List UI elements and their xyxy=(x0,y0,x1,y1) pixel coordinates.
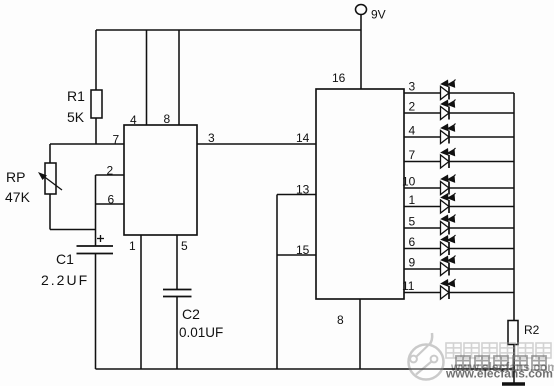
LED D3 xyxy=(441,80,456,100)
svg-text:6: 6 xyxy=(108,193,115,207)
svg-text:15: 15 xyxy=(296,243,310,257)
wire C2 bottom xyxy=(176,297,178,370)
wire pin 4 drop xyxy=(146,30,148,125)
wire pin 5 drop xyxy=(176,235,178,290)
wire top supply rail xyxy=(96,29,361,31)
wire 4017 output 11 row xyxy=(404,292,514,294)
wire pin 13 stub xyxy=(277,194,316,196)
watermark logo circle xyxy=(409,333,444,380)
wire RP bottom xyxy=(49,194,51,230)
svg-text:6: 6 xyxy=(409,235,416,249)
svg-text:7: 7 xyxy=(113,133,120,147)
ground symbol xyxy=(502,382,525,386)
svg-text:1: 1 xyxy=(129,239,136,253)
wire 4017 output 9 row xyxy=(404,268,514,270)
svg-text:8: 8 xyxy=(164,112,171,126)
wire 4017 output 1 row xyxy=(404,206,514,208)
svg-text:2: 2 xyxy=(409,100,416,114)
watermark CJK row dark xyxy=(456,356,546,370)
node 9V terminal xyxy=(356,5,367,15)
wire LED bus right xyxy=(513,93,515,321)
wire pin 7 line xyxy=(50,143,124,145)
svg-text:3: 3 xyxy=(409,80,416,94)
svg-text:R2: R2 xyxy=(524,323,540,337)
svg-text:4: 4 xyxy=(409,124,416,138)
svg-text:14: 14 xyxy=(296,131,310,145)
wire bottom ground rail xyxy=(96,368,515,370)
wire pin 3 to pin 14 xyxy=(197,143,316,145)
wire 4017 output 7 row xyxy=(404,161,514,163)
watermark group xyxy=(409,333,554,381)
potentiometer RP xyxy=(38,163,62,194)
wire 4017 pin 8 to ground xyxy=(359,299,361,369)
svg-text:4: 4 xyxy=(130,113,137,127)
polarity plus C1 xyxy=(97,235,104,242)
LED D7 xyxy=(441,148,456,168)
LED D4 xyxy=(441,124,456,144)
LED D5 xyxy=(441,215,456,235)
resistor R2 xyxy=(508,321,518,345)
LED D6 xyxy=(441,235,456,255)
svg-text:47K: 47K xyxy=(5,189,31,205)
LED D9 xyxy=(441,256,456,276)
svg-text:9V: 9V xyxy=(371,8,386,22)
LED rows group xyxy=(402,80,514,300)
svg-text:13: 13 xyxy=(296,183,310,197)
wire 4017 output 3 row xyxy=(404,92,514,94)
wire pin 1 drop xyxy=(140,235,142,369)
wire pin 6 stub xyxy=(96,203,125,205)
svg-text:2.2UF: 2.2UF xyxy=(41,272,89,288)
svg-text:RP: RP xyxy=(6,169,25,185)
wire pin 2 stub xyxy=(96,174,125,176)
svg-text:16: 16 xyxy=(332,71,346,85)
wire 4017 output 5 row xyxy=(404,227,514,229)
svg-text:2: 2 xyxy=(107,164,114,178)
wire pins 2-6 tie xyxy=(95,175,97,246)
wire pin 15 stub xyxy=(277,254,316,256)
svg-text:5K: 5K xyxy=(67,109,85,125)
svg-text:8: 8 xyxy=(337,313,344,327)
svg-text:0.01UF: 0.01UF xyxy=(179,325,223,340)
wire pins 13-15 tie xyxy=(276,195,278,370)
svg-text:9: 9 xyxy=(409,256,416,270)
wire 4017 output 6 row xyxy=(404,248,514,250)
LED D2 xyxy=(441,100,456,120)
LED D11 xyxy=(441,279,456,299)
resistor R1 xyxy=(91,90,102,118)
IC U2 4017 body xyxy=(316,89,404,299)
LED D1 xyxy=(441,193,456,213)
svg-text:5: 5 xyxy=(409,215,416,229)
svg-text:5: 5 xyxy=(181,239,188,253)
svg-text:7: 7 xyxy=(409,148,416,162)
wire RP jog to C1 xyxy=(50,229,96,231)
wire R1 top xyxy=(95,30,97,90)
svg-text:www.elecfans.com: www.elecfans.com xyxy=(450,360,554,374)
svg-text:1: 1 xyxy=(409,193,416,207)
wire pin 8 drop xyxy=(178,30,180,125)
svg-text:C1: C1 xyxy=(56,251,74,267)
svg-text:C2: C2 xyxy=(182,306,200,322)
LED D10 xyxy=(441,175,456,195)
svg-text:R1: R1 xyxy=(67,88,85,104)
op-amp U1 555 timer body xyxy=(124,125,197,235)
wire C1 bottom xyxy=(95,254,97,370)
wire 9V drop to pin16 xyxy=(360,15,362,90)
capacitor C2 xyxy=(163,290,192,297)
wire RP top xyxy=(49,144,51,163)
capacitor C1 (electrolytic) xyxy=(77,246,114,254)
svg-text:3: 3 xyxy=(208,131,215,145)
svg-text:11: 11 xyxy=(402,279,415,293)
wire 4017 output 10 row xyxy=(404,187,514,189)
svg-text:10: 10 xyxy=(402,175,416,189)
wire R1 bottom to pin7 xyxy=(95,118,97,144)
wire R2 bottom xyxy=(513,345,515,384)
wire 4017 output 2 row xyxy=(404,112,514,114)
watermark CJK row light xyxy=(446,343,551,358)
wire 4017 output 4 row xyxy=(404,136,514,138)
